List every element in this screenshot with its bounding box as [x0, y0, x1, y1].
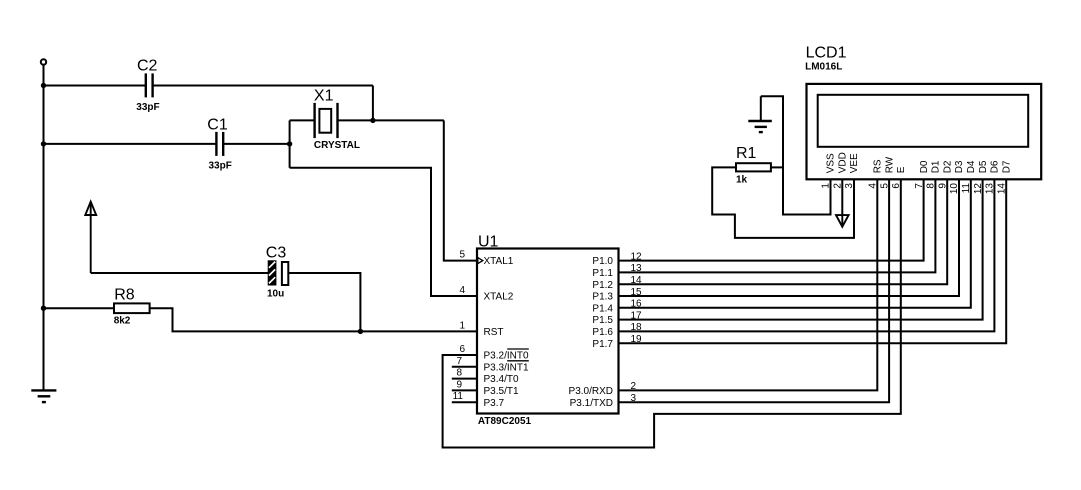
LCD display LCD1 LM016L body — [807, 84, 1042, 179]
power terminal (up arrow) — [85, 202, 96, 215]
wire rail to R8 — [44, 307, 115, 309]
wire C1 row right to crystal-left net — [223, 143, 289, 145]
wire P3.2 stub and route to LCD E — [443, 179, 901, 447]
svg-text:19: 19 — [631, 334, 643, 345]
svg-text:VDD: VDD — [838, 152, 849, 173]
wire VEE route to R1 left — [712, 167, 854, 238]
svg-text:VEE: VEE — [849, 153, 860, 173]
crystal X1 — [313, 103, 315, 138]
wire P3.3 stub — [452, 366, 477, 368]
svg-text:RW: RW — [884, 156, 895, 173]
wire VSS down-left to ground net — [761, 96, 831, 214]
resistor R1 — [736, 163, 771, 171]
wire P1.0 to LCD D0 — [619, 179, 924, 260]
svg-text:7: 7 — [456, 356, 462, 367]
svg-text:8k2: 8k2 — [114, 315, 131, 326]
capacitor C2 — [145, 73, 147, 97]
svg-text:6: 6 — [891, 183, 902, 189]
wire crystal-left bottom run to XTAL2 — [290, 168, 477, 296]
svg-text:LM016L: LM016L — [805, 62, 842, 73]
svg-text:11: 11 — [453, 391, 464, 402]
svg-text:C2: C2 — [137, 58, 158, 75]
svg-text:9: 9 — [937, 183, 948, 189]
svg-text:P1.6: P1.6 — [592, 327, 613, 338]
node: rail to C1 wire junction — [41, 141, 46, 146]
svg-text:18: 18 — [631, 322, 643, 333]
svg-text:7: 7 — [914, 183, 925, 189]
svg-text:D0: D0 — [919, 160, 930, 173]
wire P1.4 to LCD D4 — [619, 179, 971, 307]
svg-text:4: 4 — [459, 285, 465, 296]
svg-text:2: 2 — [631, 381, 637, 392]
svg-text:D3: D3 — [954, 160, 965, 173]
svg-text:R8: R8 — [114, 286, 135, 303]
svg-text:XTAL2: XTAL2 — [484, 292, 514, 303]
svg-text:12: 12 — [631, 251, 643, 262]
svg-text:D2: D2 — [942, 160, 953, 173]
IC U1 AT89C2051 body — [477, 249, 619, 414]
svg-text:1: 1 — [459, 320, 465, 331]
resistor R8 — [114, 303, 150, 313]
wire C1 row left — [44, 143, 217, 145]
wire P1.1 to LCD D1 — [619, 179, 936, 272]
svg-text:11: 11 — [961, 183, 972, 194]
svg-text:5: 5 — [879, 183, 890, 189]
svg-text:D7: D7 — [1001, 160, 1012, 173]
wire P1.6 to LCD D6 — [619, 179, 995, 331]
svg-text:P1.0: P1.0 — [592, 256, 613, 267]
svg-text:P1.1: P1.1 — [592, 268, 613, 279]
svg-text:E: E — [896, 166, 907, 173]
wire C3 right to RST row — [288, 273, 360, 331]
svg-text:P1.5: P1.5 — [592, 315, 613, 326]
svg-text:6: 6 — [459, 344, 465, 355]
svg-text:14: 14 — [996, 183, 1007, 195]
svg-text:P1.7: P1.7 — [592, 339, 613, 350]
wire crystal-left down — [289, 120, 291, 167]
svg-text:5: 5 — [459, 250, 465, 261]
wire C2 row left — [44, 85, 146, 87]
svg-text:D4: D4 — [966, 160, 977, 173]
svg-text:RST: RST — [484, 327, 504, 338]
svg-text:XTAL1: XTAL1 — [484, 256, 514, 267]
ground (near LCD) — [748, 96, 772, 132]
svg-text:P3.4/T0: P3.4/T0 — [484, 374, 519, 385]
wire crystal left lead — [290, 119, 315, 121]
svg-text:8: 8 — [926, 183, 937, 189]
svg-text:10: 10 — [949, 183, 960, 195]
power terminal (down arrow) on VDD — [836, 215, 849, 227]
svg-text:P1.4: P1.4 — [592, 303, 613, 314]
capacitor C3 (polarised) — [269, 261, 289, 285]
svg-text:P3.2/INT0: P3.2/INT0 — [484, 351, 529, 362]
wire power arrow to C3 — [91, 272, 269, 274]
svg-text:C3: C3 — [266, 245, 287, 262]
svg-text:P3.1/TXD: P3.1/TXD — [570, 398, 613, 409]
svg-text:3: 3 — [631, 393, 637, 404]
node: C1 / crystal-left junction — [287, 141, 292, 146]
svg-text:P3.3/INT1: P3.3/INT1 — [484, 362, 529, 373]
wire C2 down to crystal row — [372, 86, 374, 121]
svg-text:17: 17 — [631, 310, 643, 321]
svg-text:D1: D1 — [931, 160, 942, 173]
clock input arrow on XTAL1 — [478, 258, 483, 264]
wire P1.3 to LCD D3 — [619, 179, 960, 296]
wire P3.7 stub — [452, 401, 477, 403]
svg-text:10u: 10u — [267, 288, 284, 299]
svg-text:P1.3: P1.3 — [592, 292, 613, 303]
svg-text:X1: X1 — [314, 87, 334, 104]
svg-text:RS: RS — [873, 159, 884, 173]
node: crystal-right / C2 junction — [370, 118, 375, 123]
svg-text:CRYSTAL: CRYSTAL — [314, 140, 360, 151]
node: rail to R8 junction — [41, 306, 46, 311]
svg-text:C1: C1 — [207, 117, 228, 134]
svg-text:15: 15 — [631, 287, 643, 298]
wire crystal-right down to XTAL1 — [444, 120, 477, 260]
svg-text:12: 12 — [973, 183, 984, 195]
svg-text:1k: 1k — [736, 175, 748, 186]
svg-text:8: 8 — [456, 368, 462, 379]
wire P3.1/TXD to LCD RW — [619, 179, 890, 402]
node: C3 branch on RST wire — [358, 329, 363, 334]
svg-text:P3.7: P3.7 — [484, 398, 505, 409]
svg-text:16: 16 — [631, 299, 643, 310]
wire VDD down to power arrow — [841, 179, 843, 225]
node: rail to C2 wire junction — [41, 83, 46, 88]
svg-text:14: 14 — [631, 275, 643, 286]
svg-text:33pF: 33pF — [209, 160, 232, 171]
svg-text:LCD1: LCD1 — [806, 45, 847, 62]
wire left vertical rail — [43, 65, 45, 391]
svg-text:R1: R1 — [736, 145, 757, 162]
svg-text:D6: D6 — [990, 160, 1001, 173]
wire P3.0/RXD to LCD RS — [619, 179, 878, 390]
svg-text:9: 9 — [456, 379, 462, 390]
wire P3.4 stub — [452, 378, 477, 380]
wire P1.2 to LCD D2 — [619, 179, 948, 284]
wire P1.7 to LCD D7 — [619, 179, 1007, 343]
svg-text:D5: D5 — [978, 160, 989, 173]
wire P1.5 to LCD D5 — [619, 179, 983, 319]
svg-text:13: 13 — [985, 183, 996, 195]
svg-text:P1.2: P1.2 — [592, 280, 613, 291]
wire crystal right lead — [338, 119, 444, 121]
capacitor C1 — [215, 132, 217, 156]
svg-text:VSS: VSS — [826, 153, 837, 173]
wire C2 row right — [153, 85, 373, 87]
ground (left, bottom of rail) — [31, 390, 56, 402]
svg-text:4: 4 — [868, 183, 879, 189]
wire R8 to RST pin — [150, 308, 477, 331]
terminal circle (open) top of left rail — [41, 59, 46, 64]
svg-text:P3.5/T1: P3.5/T1 — [484, 386, 519, 397]
svg-text:13: 13 — [631, 263, 643, 274]
svg-text:P3.0/RXD: P3.0/RXD — [569, 386, 613, 397]
LCD display window — [818, 95, 1028, 147]
svg-text:U1: U1 — [478, 233, 499, 250]
svg-text:AT89C2051: AT89C2051 — [478, 416, 532, 427]
wire R1 right to ground net — [771, 166, 783, 168]
wire P3.5 stub — [452, 389, 477, 391]
svg-text:33pF: 33pF — [136, 102, 159, 113]
